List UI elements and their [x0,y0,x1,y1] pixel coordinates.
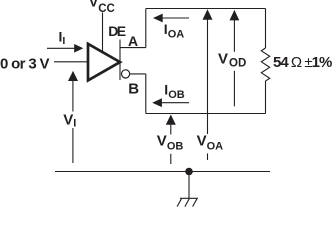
resistor 54 ohm zigzag [261,48,269,81]
wire B from bubble [130,73,146,75]
wire A step horizontal [120,47,146,49]
arrowhead VOA [203,9,213,19]
wire bottom rail B [146,113,266,115]
ground chassis symbol [177,198,198,206]
arrowhead IOA [153,14,163,23]
wire resistor top lead [265,9,267,49]
svg-text:0 or 3 V: 0 or 3 V [0,55,50,72]
arrowhead II [74,44,83,53]
arrowhead IOB [152,98,162,107]
wire input line [54,61,87,63]
arrowhead VOB [166,115,176,125]
svg-text:B: B [128,80,139,97]
measure VOA shaft [207,20,209,135]
current IOA shaft [163,17,190,19]
wire B vertical [145,74,147,114]
measure VOB shaft [170,125,172,135]
current IOB shaft [162,102,190,104]
wire resistor bottom lead [265,81,267,114]
wire DE/apex vertical [119,40,121,81]
op-amp driver triangle [88,44,120,81]
svg-text:A: A [128,33,138,49]
svg-text:DE: DE [108,23,126,39]
junction dot ground node [185,168,193,176]
measure VI shaft [72,81,74,112]
inverting bubble B output [122,70,130,78]
wire ground rail [55,171,270,173]
svg-text:54 Ω ±1%: 54 Ω ±1% [273,54,332,71]
arrowhead VOD [230,10,240,21]
wire ground stem [188,172,190,199]
current II shaft [47,47,75,49]
wire top rail A [146,8,266,10]
wire Vcc lead [102,13,104,53]
measure VOD shaft [233,20,235,52]
arrowhead VI [68,71,78,81]
wire A step vertical [145,9,147,48]
